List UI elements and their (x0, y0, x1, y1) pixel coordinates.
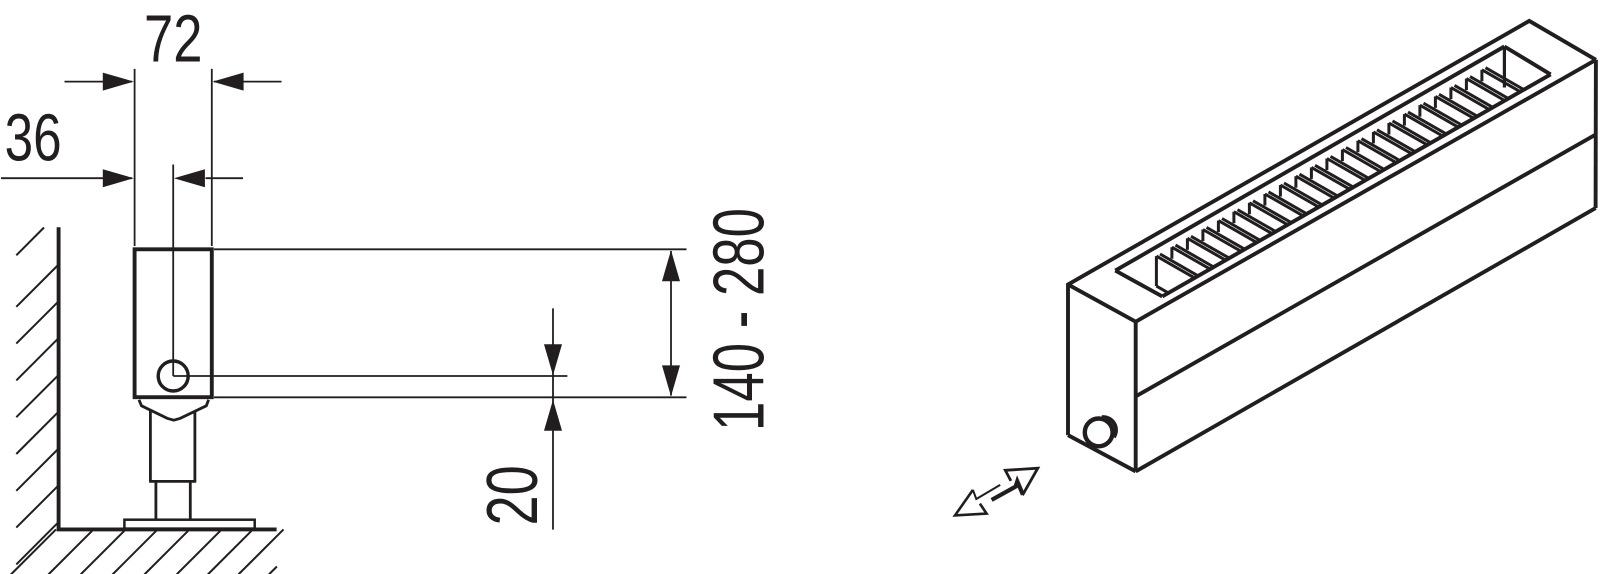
convector fins (1156, 68, 1523, 293)
pipe center line (173, 375, 567, 377)
opening right inner corner edge (1503, 47, 1506, 88)
svg-text:36: 36 (5, 101, 62, 176)
pipe connection circle (158, 361, 188, 391)
radiator body cross-section (135, 249, 212, 397)
stand tube (156, 481, 190, 519)
top extension line (214, 248, 687, 250)
front panel seam (1136, 134, 1596, 396)
svg-text:72: 72 (144, 1, 203, 76)
direction arrow up-right shaft (992, 481, 1023, 500)
top opening rim (1115, 47, 1550, 297)
direction arrow up-right head (1005, 468, 1038, 495)
bottom extension line (214, 396, 687, 398)
floor hatching (11, 529, 284, 574)
stand column (149, 410, 196, 481)
wall section line (57, 227, 61, 531)
dimension 20 lines (544, 308, 562, 529)
dimension 36 lines (1, 169, 243, 187)
dimension 140-280 lines (662, 250, 680, 396)
direction arrow down-left shaft (973, 485, 1000, 499)
dimension 72 lines (65, 69, 282, 246)
pipe boss rim (1085, 419, 1113, 447)
base plate (124, 520, 254, 529)
floor section line (57, 527, 277, 531)
center line (172, 165, 174, 377)
direction arrow down-left head (955, 490, 987, 516)
convector box outline (1068, 21, 1596, 472)
mounting bracket (139, 400, 209, 420)
svg-text:20: 20 (473, 465, 553, 525)
svg-text:140 - 280: 140 - 280 (700, 208, 780, 431)
wall hatching (16, 228, 58, 565)
pipe boss base (1102, 417, 1116, 437)
